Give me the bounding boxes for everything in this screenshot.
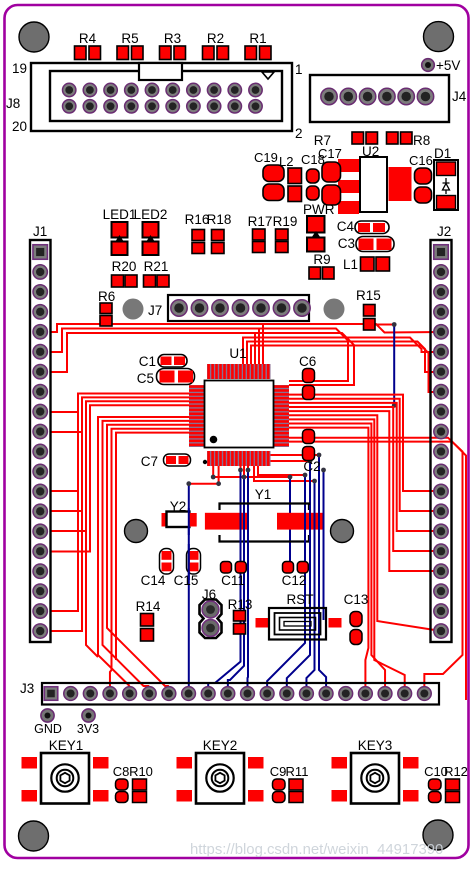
svg-text:C7: C7 bbox=[141, 454, 158, 469]
svg-text:C15: C15 bbox=[174, 573, 199, 588]
svg-text:J3: J3 bbox=[20, 681, 34, 696]
svg-text:L2: L2 bbox=[279, 154, 293, 169]
svg-text:C12: C12 bbox=[282, 573, 307, 588]
svg-text:GND: GND bbox=[34, 722, 62, 736]
svg-text:R8: R8 bbox=[413, 133, 430, 148]
svg-text:R20: R20 bbox=[112, 259, 137, 274]
svg-text:C1: C1 bbox=[139, 354, 156, 369]
svg-text:R15: R15 bbox=[356, 288, 381, 303]
svg-text:C5: C5 bbox=[137, 371, 154, 386]
svg-text:C3: C3 bbox=[338, 236, 355, 251]
svg-text:J8: J8 bbox=[6, 96, 20, 111]
svg-text:R19: R19 bbox=[273, 214, 298, 229]
svg-text:J7: J7 bbox=[148, 303, 162, 318]
svg-text:PWR: PWR bbox=[303, 202, 335, 217]
svg-text:RST: RST bbox=[287, 592, 314, 607]
svg-text:C13: C13 bbox=[344, 592, 369, 607]
svg-text:LED1: LED1 bbox=[103, 207, 137, 222]
svg-text:R3: R3 bbox=[164, 31, 181, 46]
svg-text:R12: R12 bbox=[444, 764, 468, 779]
svg-text:R18: R18 bbox=[207, 212, 232, 227]
svg-text:R9: R9 bbox=[313, 252, 330, 267]
svg-text:R6: R6 bbox=[98, 289, 115, 304]
svg-text:J1: J1 bbox=[33, 224, 47, 239]
svg-text:C9: C9 bbox=[270, 764, 287, 779]
svg-text:C2: C2 bbox=[303, 459, 320, 474]
svg-text:Y1: Y1 bbox=[255, 487, 272, 502]
svg-text:R21: R21 bbox=[144, 259, 169, 274]
svg-text:J4: J4 bbox=[452, 89, 467, 104]
svg-text:J2: J2 bbox=[437, 224, 451, 239]
svg-text:C8: C8 bbox=[113, 764, 130, 779]
svg-text:KEY1: KEY1 bbox=[49, 738, 84, 753]
svg-text:R11: R11 bbox=[286, 764, 309, 779]
svg-text:R10: R10 bbox=[129, 764, 153, 779]
svg-text:R2: R2 bbox=[207, 31, 224, 46]
svg-text:C11: C11 bbox=[221, 573, 245, 588]
svg-text:U1: U1 bbox=[229, 346, 246, 361]
svg-text:C14: C14 bbox=[141, 573, 166, 588]
svg-text:R5: R5 bbox=[121, 31, 138, 46]
svg-text:+5V: +5V bbox=[436, 58, 460, 73]
svg-text:C16: C16 bbox=[409, 153, 433, 168]
svg-text:C6: C6 bbox=[299, 354, 316, 369]
svg-text:3V3: 3V3 bbox=[77, 722, 99, 736]
svg-text:1: 1 bbox=[295, 62, 303, 77]
svg-text:LED2: LED2 bbox=[134, 207, 168, 222]
svg-text:R1: R1 bbox=[249, 31, 266, 46]
svg-text:R4: R4 bbox=[79, 31, 97, 46]
svg-text:KEY3: KEY3 bbox=[358, 738, 393, 753]
svg-text:https://blog.csdn.net/weixin_4: https://blog.csdn.net/weixin_44917390 bbox=[190, 842, 443, 858]
svg-text:KEY2: KEY2 bbox=[203, 738, 238, 753]
svg-text:C19: C19 bbox=[254, 150, 278, 165]
svg-text:19: 19 bbox=[12, 61, 27, 76]
svg-text:20: 20 bbox=[12, 119, 27, 134]
svg-text:L1: L1 bbox=[343, 257, 358, 272]
svg-text:C4: C4 bbox=[337, 219, 355, 234]
svg-text:D1: D1 bbox=[434, 146, 451, 161]
svg-text:2: 2 bbox=[295, 126, 303, 141]
svg-text:R14: R14 bbox=[136, 599, 161, 614]
svg-text:C17: C17 bbox=[318, 146, 342, 161]
svg-text:R17: R17 bbox=[248, 214, 273, 229]
